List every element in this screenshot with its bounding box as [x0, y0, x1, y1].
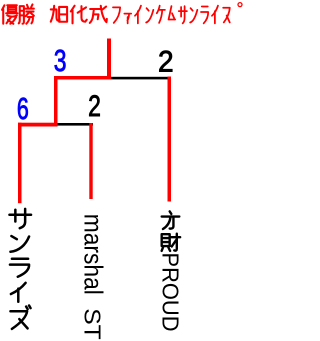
svg-text:marshal: marshal — [79, 214, 109, 295]
semifinal horizontal red (left half) — [18, 123, 58, 127]
svg-text:ST: ST — [80, 308, 106, 340]
semifinal horizontal black (right half) — [58, 123, 94, 126]
title 旭化成 — [51, 6, 107, 24]
final horizontal black (right half) — [111, 77, 170, 80]
final horizontal red (left half) — [54, 76, 111, 80]
svg-text:6: 6 — [17, 91, 29, 126]
svg-text:3: 3 — [54, 43, 67, 78]
right column 方財PROUD — [162, 211, 180, 251]
left team vertical (red) to サンライズ — [18, 123, 22, 204]
svg-text:2: 2 — [158, 46, 174, 79]
champion vertical (red) — [107, 39, 111, 80]
svg-text:PROUD: PROUD — [158, 253, 184, 332]
right team vertical (red) to PROUD — [168, 77, 172, 202]
dakuten — [238, 3, 242, 7]
left semifinal vertical (red) — [54, 77, 58, 127]
svg-text:2: 2 — [88, 89, 101, 123]
middle team vertical (red) to marshal ST — [89, 123, 92, 199]
left column サンライズ — [9, 209, 31, 329]
title 優勝 — [2, 4, 34, 23]
title ﾌｧｲﾝｹﾑｻﾝﾗｲｽﾞ — [113, 6, 230, 24]
